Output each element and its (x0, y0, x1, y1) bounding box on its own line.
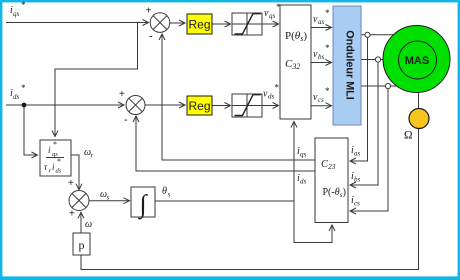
wire phase b Onduleur to MAS (361, 59, 384, 61)
wire MAS to speed sensor (418, 93, 420, 109)
divider block iqs*/(tau_r ids*) (40, 140, 71, 176)
svg-text:+: + (146, 6, 152, 17)
svg-text:*: * (57, 157, 61, 166)
svg-text:Onduleur MLI: Onduleur MLI (344, 30, 356, 100)
svg-text:*: * (275, 83, 280, 93)
svg-text:P(-θs): P(-θs) (323, 187, 346, 199)
wire ias tap to C23 (350, 37, 368, 161)
wire summer1 to Reg1 (170, 22, 185, 24)
wire vbs* C32 to Onduleur (311, 62, 332, 64)
svg-text:s: s (168, 191, 171, 199)
svg-text:MAS: MAS (405, 55, 429, 67)
Reg1 controller block (187, 14, 212, 34)
svg-text:Reg: Reg (188, 99, 210, 113)
wire iqs feedback C23 to summer1 (162, 34, 315, 160)
tap node phase a (365, 32, 370, 37)
wire vas* C32 to Onduleur (311, 27, 332, 29)
wire theta_s to C32 (293, 122, 295, 202)
wire omega_r divider to summer3 (71, 155, 79, 190)
C32 transformation block P(theta_s) (280, 5, 311, 119)
wire Reg2 to saturation2 (212, 105, 231, 107)
summer 1 (iqs comparison) (150, 13, 170, 33)
svg-text:ds: ds (268, 93, 275, 101)
svg-text:cs: cs (318, 96, 324, 104)
svg-text:bs: bs (354, 176, 361, 184)
Reg2 controller block (187, 96, 212, 115)
svg-text:s: s (107, 194, 110, 202)
svg-text:ds: ds (300, 178, 307, 186)
svg-text:r: r (91, 152, 94, 160)
svg-text:+: + (119, 89, 125, 100)
MAS motor (383, 26, 450, 93)
wire ics tap to C23 (350, 88, 388, 211)
frame border left (0, 0, 2, 280)
svg-text:*: * (276, 2, 281, 12)
wire p block to summer3 (80, 212, 82, 233)
wire saturation1 to C32 vqs* (262, 23, 279, 25)
junction dot on ids* line (22, 103, 27, 108)
svg-text:*: * (325, 86, 330, 96)
svg-text:as: as (354, 150, 361, 158)
frame border top (0, 0, 460, 2)
wire vcs* C32 to Onduleur (311, 105, 332, 107)
frame border right (458, 0, 460, 280)
svg-text:Ω: Ω (404, 130, 413, 142)
wire omega_s summer3 to integrator (89, 200, 130, 202)
svg-text:bs: bs (318, 53, 325, 61)
svg-text:qs: qs (13, 10, 20, 18)
wire phase a Onduleur to MAS (361, 34, 394, 36)
svg-text:cs: cs (354, 200, 360, 208)
wire ids feedback C23 to summer2 (136, 116, 315, 171)
svg-text:*: * (21, 83, 26, 93)
wire ibs tap to C23 (350, 62, 378, 185)
speed sensor (409, 109, 429, 129)
svg-text:-: - (149, 31, 153, 43)
svg-text:qs: qs (300, 151, 307, 159)
svg-text:*: * (325, 8, 330, 18)
wire Reg1 to saturation1 (212, 23, 231, 25)
summer 2 (ids comparison) (126, 96, 145, 115)
svg-text:+: + (69, 209, 75, 220)
frame border bottom (0, 276, 460, 280)
wire branch ids* to divider block (24, 105, 38, 155)
svg-text:θ: θ (162, 186, 167, 197)
C23 transformation block P(-theta_s) (315, 138, 348, 223)
saturation block 1 (232, 13, 262, 35)
svg-text:as: as (318, 18, 325, 26)
wire branch iqs* to divider block (55, 23, 138, 137)
svg-text:+: + (68, 178, 74, 189)
wire theta_s integrator output (155, 200, 294, 202)
svg-text:*: * (21, 0, 26, 10)
wire iqs* reference input (6, 22, 149, 24)
svg-text:Reg: Reg (188, 18, 210, 32)
tap node phase c (385, 83, 390, 88)
Onduleur MLI block (333, 6, 361, 125)
svg-text:ω: ω (85, 219, 92, 230)
wire ids* reference input (6, 104, 124, 106)
wire phase c Onduleur to MAS (361, 85, 397, 87)
svg-text:ds: ds (56, 168, 62, 175)
svg-text:*: * (53, 140, 57, 149)
svg-text:-: - (124, 114, 128, 126)
svg-text:p: p (79, 238, 85, 252)
svg-text:ds: ds (13, 93, 20, 101)
saturation block 2 (232, 94, 262, 117)
svg-text:P(θs): P(θs) (285, 30, 307, 43)
wire theta_s to C23 (294, 201, 332, 243)
wire speed feedback omega (81, 128, 419, 269)
svg-text:qs: qs (269, 12, 276, 20)
wire saturation2 to C32 vds* (262, 105, 279, 107)
summer 3 (omega_r + omega) (69, 191, 89, 211)
p block (pole pairs) (73, 233, 90, 255)
tap node phase b (375, 57, 380, 62)
integrator block (131, 187, 155, 220)
svg-text:*: * (325, 43, 330, 53)
wire summer2 to Reg2 (145, 104, 185, 106)
